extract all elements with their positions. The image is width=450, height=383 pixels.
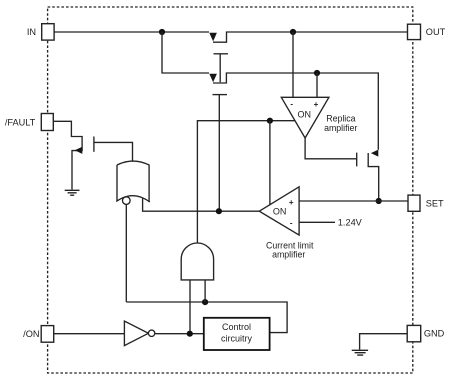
node junction /ON net <box>187 331 193 337</box>
wire enable drop to current limit amp <box>269 121 271 206</box>
svg-text:-: - <box>290 100 293 109</box>
wire AND output enable net <box>197 121 295 243</box>
svg-text:amplifier: amplifier <box>272 250 305 260</box>
svg-text:/ON: /ON <box>23 329 39 339</box>
svg-text:+: + <box>289 198 294 207</box>
wire control circuitry net <box>126 302 287 333</box>
gate G1 OR body <box>116 161 150 202</box>
pin IN <box>42 24 54 40</box>
transistor Q4 arrow <box>75 147 83 154</box>
gate G2 AND body <box>181 243 213 280</box>
transistor M1 gate lead <box>219 54 221 82</box>
node junction control net <box>202 299 208 305</box>
wire AND left input <box>189 280 191 334</box>
transistor M1 channel notch <box>213 32 408 42</box>
wire /FAULT to Q4 channel <box>53 121 82 189</box>
inverter G3 bubble <box>148 330 154 336</box>
pin SET <box>408 195 420 211</box>
transistor M1 arrow <box>209 33 217 42</box>
svg-text:Control: Control <box>222 322 251 332</box>
node junction gate drive <box>216 208 222 214</box>
node junction M2 output <box>314 70 320 76</box>
wire OR bubble input from control net <box>125 204 127 302</box>
wire AND right input <box>204 280 206 302</box>
op-amp U2 current limit amplifier <box>259 187 299 235</box>
pin OUT <box>408 24 421 39</box>
control circuitry box <box>204 318 270 350</box>
svg-text:SET: SET <box>426 199 444 209</box>
wire IN drop to M2 <box>162 32 209 73</box>
wire SET net <box>299 200 408 202</box>
svg-text:Replica: Replica <box>326 113 355 123</box>
svg-text:amplifier: amplifier <box>324 123 357 133</box>
wire replica non-inverting input <box>316 73 318 97</box>
wire inverter output to control box <box>155 333 204 335</box>
svg-text:+: + <box>314 100 319 109</box>
wire IN rail to M1 <box>54 31 209 33</box>
transistor M2 gate lead to current limit net <box>218 95 220 212</box>
transistor M2 channel notch <box>213 73 378 150</box>
transistor Q3 gate bar <box>356 153 358 167</box>
ground symbol under Q4 <box>65 190 80 195</box>
gate G1 OR bubble <box>123 197 131 205</box>
inverter G3 <box>124 321 148 346</box>
op-amp U1 replica amplifier <box>281 97 329 138</box>
wire replica inverting input <box>292 32 294 97</box>
node junction enable net <box>267 118 273 124</box>
wire /ON to inverter <box>54 333 125 335</box>
pin GND <box>407 325 421 341</box>
wire OR output to Q4 gate <box>94 142 133 161</box>
svg-text:/FAULT: /FAULT <box>5 118 36 128</box>
svg-text:ON: ON <box>298 110 312 120</box>
svg-text:IN: IN <box>27 27 36 37</box>
wire replica output to Q3 gate <box>305 138 357 159</box>
svg-text:OUT: OUT <box>426 27 446 37</box>
transistor M2 gate bar <box>213 94 228 96</box>
node junction IN rail left <box>159 29 165 35</box>
wire current limit output <box>143 199 260 212</box>
svg-text:circuitry: circuitry <box>221 333 252 343</box>
pin /FAULT <box>41 114 53 131</box>
ground symbol at GND <box>352 350 368 355</box>
node junction IN rail right <box>290 29 296 35</box>
dashed device boundary <box>48 7 413 373</box>
svg-text:ON: ON <box>273 207 287 217</box>
wire GND pin to ground <box>360 334 408 350</box>
svg-text:-: - <box>290 218 293 227</box>
transistor Q4 gate bar <box>93 137 95 152</box>
transistor M1 gate bar <box>214 53 229 55</box>
node junction SET net <box>376 198 382 204</box>
transistor Q3 arrow <box>371 150 378 157</box>
svg-text:GND: GND <box>424 329 445 339</box>
transistor M2 arrow <box>209 74 217 82</box>
pin /ON <box>41 326 54 343</box>
transistor Q3 channel notch <box>368 153 379 201</box>
wire 1.24V reference input <box>299 221 335 223</box>
svg-text:1.24V: 1.24V <box>338 218 363 228</box>
